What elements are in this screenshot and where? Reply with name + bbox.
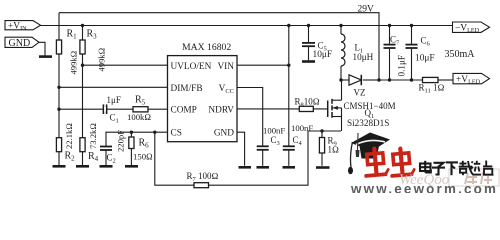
svg-text:73.2kΩ: 73.2kΩ [88, 123, 98, 149]
ground under R6 [125, 165, 138, 168]
svg-text:10μF: 10μF [313, 50, 333, 60]
input tag GND [5, 37, 39, 49]
watermark bug char 1 [364, 148, 389, 176]
wire C7 branch [389, 26, 391, 44]
watermark weiku chars [465, 172, 494, 184]
ground under C4 [283, 166, 296, 169]
wire C2 bottom stub [105, 150, 107, 166]
diode VZ CMSH1-40M [349, 75, 361, 85]
resistor R8 [299, 106, 313, 111]
watermark chinese zai [459, 161, 473, 175]
wire L1 leads [340, 26, 342, 35]
capacitor C1 [103, 104, 106, 114]
watermark chinese zi [432, 163, 445, 175]
svg-text:COMP: COMP [171, 106, 197, 116]
svg-text:DIM/FB: DIM/FB [171, 84, 203, 94]
wire C5 branch [308, 26, 310, 43]
svg-text:29V: 29V [358, 5, 375, 15]
wire R1/R2 vertical line [58, 13, 60, 166]
wire VIN pin [237, 64, 289, 66]
resistor R1 [56, 40, 61, 54]
svg-text:NDRV: NDRV [208, 105, 234, 115]
svg-text:www.eeworm.com: www.eeworm.com [350, 182, 498, 194]
capacitor C5 [302, 43, 315, 46]
wire COMP [59, 108, 168, 110]
svg-text:22.1kΩ: 22.1kΩ [64, 123, 74, 149]
svg-text:CS: CS [171, 129, 182, 139]
wire C6 branch [411, 26, 413, 44]
wire R3/R4 vertical line [82, 26, 84, 166]
watermark chinese dian [420, 161, 431, 173]
resistor R9 [319, 138, 324, 154]
resistor R6 [129, 137, 134, 149]
wire MOSFET source node [308, 130, 341, 132]
wire VCC to C3 [237, 88, 263, 147]
watermark chinese zhan [473, 161, 492, 175]
resistor R3 [80, 40, 85, 54]
svg-text:1μF: 1μF [107, 95, 121, 105]
wire NDRV [237, 108, 328, 110]
svg-text:UVLO/EN: UVLO/EN [171, 62, 212, 72]
svg-text:MAX 16802: MAX 16802 [182, 42, 231, 53]
capacitor C7 [384, 45, 396, 48]
svg-text:100nF: 100nF [263, 126, 285, 136]
ground under R4 [76, 165, 89, 168]
ground under C3 [257, 166, 270, 169]
wire R7 to source riser [209, 131, 309, 185]
svg-text:GND: GND [214, 129, 234, 139]
svg-text:Si2328D1S: Si2328D1S [347, 118, 389, 128]
svg-text:100nF: 100nF [291, 123, 313, 133]
wire DIM/FB [59, 86, 168, 88]
ground under R9 [316, 166, 330, 169]
resistor R11 [423, 77, 439, 82]
wire CS [106, 132, 168, 146]
svg-text:150Ω: 150Ω [133, 152, 153, 162]
inductor L1 [341, 34, 345, 66]
wire +VIN input rail [41, 25, 453, 27]
svg-text:10μF: 10μF [415, 54, 435, 64]
watermark WeeQoo box [449, 169, 499, 186]
wire 29V top rail [59, 13, 379, 80]
svg-text:VZ: VZ [354, 88, 366, 98]
wire GND tag to ground [39, 42, 45, 56]
capacitor C2 [100, 147, 112, 151]
ground under C5 [302, 60, 315, 63]
svg-text:350mA: 350mA [445, 49, 476, 60]
watermark chinese xia [446, 162, 458, 175]
capacitor C3 [257, 146, 269, 150]
svg-text:1Ω: 1Ω [328, 145, 340, 155]
watermark graduation cap [348, 133, 390, 175]
svg-text:10μH: 10μH [353, 52, 374, 62]
svg-text:GND: GND [9, 38, 31, 49]
capacitor C4 [283, 146, 295, 150]
resistor R5 [133, 107, 148, 112]
ground under R2 [53, 165, 66, 168]
resistor R2 [56, 138, 61, 152]
svg-text:100kΩ: 100kΩ [127, 112, 151, 122]
ground under IC GND [239, 166, 252, 169]
svg-text:499kΩ: 499kΩ [97, 48, 107, 72]
svg-text:220pF: 220pF [116, 130, 126, 152]
ground under GND tag [39, 55, 52, 58]
watermark bug char 2 [390, 148, 415, 176]
svg-text:VIN: VIN [217, 62, 234, 72]
wire UVLO/EN [83, 64, 168, 66]
wire switch node / diode wire [341, 79, 349, 81]
svg-text:0.1μF: 0.1μF [397, 55, 407, 77]
capacitor C6 [406, 45, 418, 48]
svg-text:499kΩ: 499kΩ [69, 51, 79, 75]
resistor R7 [194, 183, 209, 188]
wire R6 branch [130, 132, 132, 137]
transistor Q1 MOSFET symbol [328, 99, 332, 118]
ground under C2 [100, 165, 113, 168]
wire IC GND pin [237, 132, 245, 166]
wire CS to R7 riser [155, 132, 194, 185]
resistor R4 [80, 138, 85, 152]
wire output 29V to LED [379, 79, 423, 81]
wire VIN riser to C4 [288, 26, 290, 147]
output tag -VLED [453, 22, 490, 34]
input tag +VIN [5, 21, 41, 32]
capacitor C1 gap cover [104, 107, 106, 111]
IC U1 MAX16802 box [168, 56, 238, 142]
wire R9 leads [321, 131, 323, 138]
output tag +VLED [453, 73, 490, 85]
